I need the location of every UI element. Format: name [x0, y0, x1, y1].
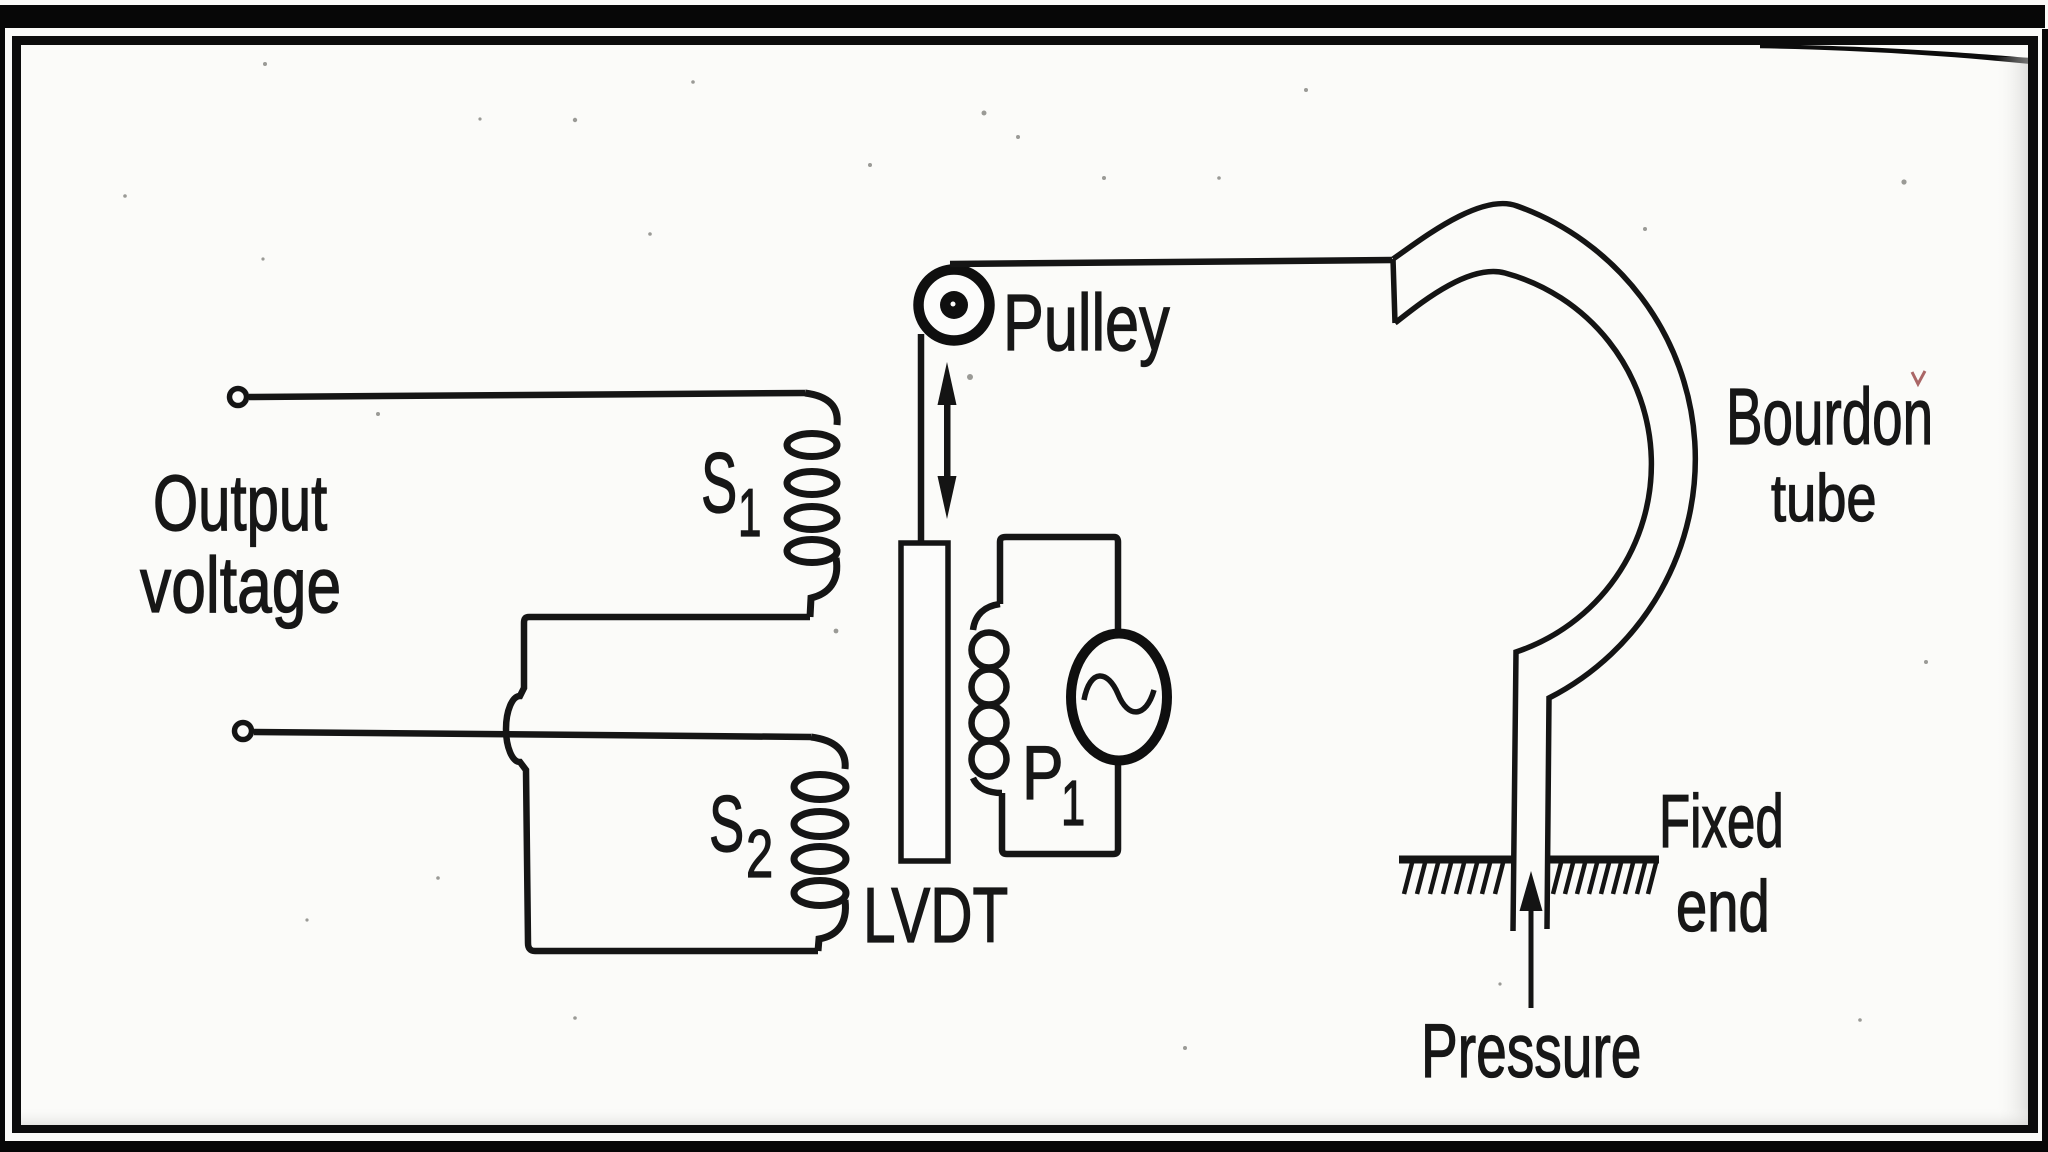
- fixed end ground line: [1399, 856, 1659, 864]
- svg-text:LVDT: LVDT: [863, 872, 1008, 959]
- ground hatching left: [1404, 863, 1503, 894]
- inductor P1 (primary coil): [972, 604, 1007, 793]
- svg-text:Fixed: Fixed: [1659, 779, 1784, 863]
- inductor S2: [794, 737, 846, 951]
- svg-text:Pressure: Pressure: [1421, 1009, 1641, 1094]
- wire: upper terminal to S1 top: [249, 393, 805, 397]
- svg-text:Pulley: Pulley: [1003, 279, 1170, 368]
- pulley: [919, 270, 990, 341]
- wire: lower terminal through hop to S2 top: [254, 732, 811, 737]
- pressure arrow: [1529, 906, 1534, 1008]
- terminal T2 (lower output): [235, 723, 252, 740]
- wire: core rod to pulley: [918, 334, 925, 543]
- svg-text:P: P: [1022, 730, 1064, 815]
- svg-text:Output: Output: [153, 458, 327, 547]
- svg-text:tube: tube: [1771, 461, 1877, 536]
- wire: S1 bottom to S2 bottom (left return) with hop: [506, 617, 818, 951]
- core rod of LVDT: [901, 543, 948, 861]
- AC source: [1071, 634, 1167, 761]
- svg-text:S: S: [709, 780, 744, 869]
- terminal T1 (upper output): [230, 389, 247, 406]
- svg-text:1: 1: [738, 475, 761, 551]
- svg-text:voltage: voltage: [140, 542, 341, 630]
- ground hatching right: [1553, 863, 1656, 894]
- wire: pulley to bourdon tube tip: [950, 260, 1392, 264]
- bourdon tube outline: [1393, 204, 1695, 931]
- inductor S1: [787, 393, 837, 617]
- primary coil circuit rectangle: [1000, 537, 1118, 636]
- svg-text:Bourdon: Bourdon: [1726, 372, 1933, 462]
- svg-text:1: 1: [1061, 767, 1085, 840]
- svg-text:end: end: [1676, 866, 1770, 946]
- motion arrow (double headed): [938, 362, 957, 519]
- svg-text:S: S: [701, 436, 737, 531]
- svg-text:2: 2: [746, 815, 773, 892]
